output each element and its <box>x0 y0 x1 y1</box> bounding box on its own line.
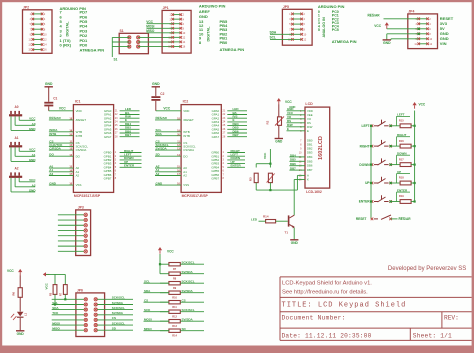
svg-text:JP5: JP5 <box>283 5 289 9</box>
svg-text:VCC: VCC <box>163 107 170 111</box>
svg-text:MOSI: MOSI <box>146 25 154 29</box>
svg-text:A2: A2 <box>32 183 36 187</box>
svg-text:C1: C1 <box>53 97 57 101</box>
svg-text:UP: UP <box>397 170 401 174</box>
svg-text:SCK/SCL: SCK/SCL <box>182 280 195 284</box>
svg-text:CS: CS <box>182 299 186 303</box>
svg-text:MISO: MISO <box>144 327 152 331</box>
svg-text:A2: A2 <box>156 172 160 176</box>
svg-text:SCL: SCL <box>144 280 150 284</box>
svg-text:GND: GND <box>17 332 25 336</box>
svg-text:SCK/SCL: SCK/SCL <box>182 308 195 312</box>
svg-text:VCC: VCC <box>167 250 174 254</box>
svg-text:5: 5 <box>318 28 320 32</box>
svg-text:INTB: INTB <box>183 134 190 138</box>
svg-text:CS/SDA: CS/SDA <box>76 148 87 152</box>
svg-text:R11: R11 <box>172 306 177 309</box>
svg-text:SCL: SCL <box>270 36 276 40</box>
svg-text:CS: CS <box>112 316 116 320</box>
svg-text:R19: R19 <box>399 194 404 198</box>
svg-text:DB3: DB3 <box>307 150 313 154</box>
svg-text:DIGITAL: DIGITAL <box>207 26 211 42</box>
svg-text:S1: S1 <box>120 29 124 33</box>
svg-text:R3: R3 <box>249 177 253 181</box>
svg-text:VSS: VSS <box>183 183 189 187</box>
svg-text:A2: A2 <box>14 167 18 171</box>
svg-text:R17: R17 <box>399 157 404 161</box>
svg-text:R10: R10 <box>172 296 177 299</box>
svg-text:DB5: DB5 <box>290 158 296 162</box>
svg-text:VCC: VCC <box>45 282 49 289</box>
svg-text:VCC: VCC <box>374 24 381 28</box>
svg-text:MISO: MISO <box>146 29 155 33</box>
svg-text:JP2: JP2 <box>23 6 29 10</box>
svg-text:SDA: SDA <box>156 132 163 136</box>
svg-text:DB6: DB6 <box>307 164 313 168</box>
svg-text:ENTER: ENTER <box>124 164 135 168</box>
svg-text:1602LCD: 1602LCD <box>318 136 324 160</box>
svg-text:K: K <box>307 178 309 182</box>
svg-text:R2: R2 <box>265 120 269 124</box>
svg-text:SV/SDA: SV/SDA <box>182 270 194 274</box>
svg-text:A0: A0 <box>14 105 18 109</box>
svg-text:GND: GND <box>156 181 164 185</box>
svg-text:GND: GND <box>29 158 37 162</box>
svg-text:SV/SDA: SV/SDA <box>112 301 124 305</box>
svg-text:SV/SDA: SV/SDA <box>156 146 168 150</box>
svg-text:MCP23S17-E/SP: MCP23S17-E/SP <box>182 194 209 198</box>
svg-text:DB4: DB4 <box>290 153 296 157</box>
svg-text:CS: CS <box>144 299 148 303</box>
svg-text:ENTER: ENTER <box>397 188 408 192</box>
svg-text:IC2: IC2 <box>183 99 189 103</box>
svg-text:DOWN: DOWN <box>359 163 370 167</box>
svg-text:VCC: VCC <box>29 117 36 121</box>
svg-text:RIGHT: RIGHT <box>360 144 370 148</box>
svg-text:DO: DO <box>183 154 188 158</box>
svg-text:R14: R14 <box>263 215 269 219</box>
svg-text:ENTER: ENTER <box>231 164 242 168</box>
svg-text:Document Number:: Document Number: <box>282 314 346 321</box>
svg-text:GND: GND <box>383 41 391 45</box>
svg-text:MISO: MISO <box>52 327 60 331</box>
svg-text:LEFT: LEFT <box>362 124 370 128</box>
svg-text:SV/SDA: SV/SDA <box>182 289 194 293</box>
svg-text:VDD: VDD <box>183 109 189 113</box>
svg-text:DB4: DB4 <box>307 155 313 159</box>
svg-text:R̅E̅S̅/AR: R̅E̅S̅/AR <box>155 116 167 120</box>
svg-text:R12: R12 <box>172 315 177 318</box>
svg-text:ANALOG IN: ANALOG IN <box>322 17 326 38</box>
svg-text:E: E <box>307 129 309 133</box>
svg-text:VCC: VCC <box>29 148 36 152</box>
svg-text:R̅E̅S̅/AR: R̅E̅S̅/AR <box>49 116 61 120</box>
svg-text:SDA: SDA <box>270 31 277 35</box>
svg-text:JP1: JP1 <box>163 6 169 10</box>
svg-text:JP3: JP3 <box>78 206 84 210</box>
svg-text:MCP23S17-E/SP: MCP23S17-E/SP <box>74 194 101 198</box>
svg-text:DB6: DB6 <box>290 162 296 166</box>
svg-text:VIN: VIN <box>440 41 447 46</box>
svg-text:T1: T1 <box>285 231 289 235</box>
svg-text:LED: LED <box>251 218 258 222</box>
svg-text:DIGITAL: DIGITAL <box>66 21 70 37</box>
svg-text:LEFT: LEFT <box>397 113 405 117</box>
svg-text:A1: A1 <box>32 153 36 157</box>
svg-text:SDA: SDA <box>52 306 59 310</box>
svg-text:PC5: PC5 <box>332 28 339 32</box>
svg-text:DB7: DB7 <box>290 167 296 171</box>
svg-text:R6: R6 <box>12 291 16 295</box>
svg-text:SCK/SCL: SCK/SCL <box>182 261 195 265</box>
svg-text:R18: R18 <box>399 176 404 180</box>
svg-text:SCK/SCL: SCK/SCL <box>112 306 125 310</box>
svg-text:VCC: VCC <box>285 100 292 104</box>
svg-text:See http://freeduino.ru for de: See http://freeduino.ru for details. <box>282 289 368 295</box>
svg-text:GND: GND <box>275 139 283 143</box>
svg-text:TITLE: LCD Keypad Shield: TITLE: LCD Keypad Shield <box>282 301 407 309</box>
svg-text:GND: GND <box>291 241 299 245</box>
svg-text:GND: GND <box>49 181 57 185</box>
svg-text:S1: S1 <box>114 58 118 62</box>
svg-text:GPB7: GPB7 <box>104 177 112 181</box>
svg-text:R7: R7 <box>60 292 63 296</box>
svg-text:A1: A1 <box>14 136 18 140</box>
svg-text:SCK/SCL: SCK/SCL <box>112 321 125 325</box>
svg-text:DB5: DB5 <box>307 159 313 163</box>
svg-text:Sheet: 1/1: Sheet: 1/1 <box>413 332 452 339</box>
svg-text:Date: 11.12.11 20:35:00: Date: 11.12.11 20:35:00 <box>282 332 372 339</box>
svg-text:SCK/SCL: SCK/SCL <box>112 296 125 300</box>
svg-text:VSS: VSS <box>76 183 82 187</box>
svg-text:LCD-1602: LCD-1602 <box>306 190 322 194</box>
svg-text:INTB: INTB <box>49 132 57 136</box>
svg-text:DOWN: DOWN <box>397 151 407 155</box>
svg-text:R15: R15 <box>399 119 404 123</box>
svg-text:GND: GND <box>29 188 37 192</box>
svg-text:/RESET: /RESET <box>76 118 87 122</box>
svg-text:C/RSDA: C/RSDA <box>49 146 61 150</box>
svg-text:PB0: PB0 <box>220 40 229 45</box>
svg-text:A0: A0 <box>32 122 36 126</box>
svg-text:REV:: REV: <box>444 314 459 321</box>
svg-text:MOSI: MOSI <box>144 318 152 322</box>
svg-text:GPA7: GPA7 <box>104 135 112 139</box>
svg-text:DB7: DB7 <box>125 133 131 137</box>
svg-text:JP4: JP4 <box>408 10 414 14</box>
svg-text:R14: R14 <box>172 334 177 337</box>
svg-text:DB7: DB7 <box>233 133 239 137</box>
svg-text:R̅E̅S̅/AR: R̅E̅S̅/AR <box>368 13 381 17</box>
svg-text:LCD-Keypad Shield for Arduino: LCD-Keypad Shield for Arduino v1. <box>282 280 372 286</box>
svg-text:ATMEGA PIN: ATMEGA PIN <box>220 47 245 52</box>
svg-text:GND: GND <box>289 105 295 109</box>
svg-text:JP6: JP6 <box>77 289 83 293</box>
svg-text:GND: GND <box>45 82 53 86</box>
svg-text:ARDUINO PIN: ARDUINO PIN <box>318 4 345 9</box>
svg-text:A2: A2 <box>49 172 53 176</box>
svg-text:ENTER: ENTER <box>359 200 371 204</box>
svg-text:A2: A2 <box>76 174 80 178</box>
svg-text:ARDUINO PIN: ARDUINO PIN <box>199 4 226 9</box>
svg-text:R16: R16 <box>399 139 404 143</box>
svg-text:RIGHT: RIGHT <box>397 133 407 137</box>
svg-text:MOSI: MOSI <box>52 321 60 325</box>
svg-text:ATMEGA PIN: ATMEGA PIN <box>80 47 105 52</box>
svg-text:INTB: INTB <box>76 134 83 138</box>
svg-text:VCC: VCC <box>146 20 153 24</box>
svg-text:VCC: VCC <box>59 107 66 111</box>
svg-text:/RESET: /RESET <box>183 118 194 122</box>
svg-text:GPA7: GPA7 <box>212 135 220 139</box>
svg-text:SCK: SCK <box>144 308 151 312</box>
svg-text:Developed by Pereverzev SS: Developed by Pereverzev SS <box>388 266 466 272</box>
svg-text:VDD: VDD <box>76 109 82 113</box>
svg-text:E: E <box>287 127 289 131</box>
svg-text:GND: GND <box>29 127 37 131</box>
svg-text:VCC: VCC <box>7 269 14 273</box>
svg-text:DB7: DB7 <box>307 168 313 172</box>
svg-text:A2: A2 <box>183 174 187 178</box>
svg-text:DO: DO <box>49 153 54 157</box>
svg-text:GPB7: GPB7 <box>211 177 219 181</box>
svg-text:IC1: IC1 <box>75 99 81 103</box>
svg-text:GND: GND <box>152 82 160 86</box>
svg-text:VCC: VCC <box>263 152 267 159</box>
svg-text:SV/SDA: SV/SDA <box>182 318 194 322</box>
svg-text:VCC: VCC <box>419 103 426 107</box>
svg-text:TCK: TCK <box>52 311 59 315</box>
svg-text:DO: DO <box>76 154 81 158</box>
svg-text:R13: R13 <box>172 325 177 328</box>
svg-text:ATMEGA PIN: ATMEGA PIN <box>332 39 357 44</box>
svg-text:C2: C2 <box>160 92 164 96</box>
svg-text:SV/SDA: SV/SDA <box>112 311 124 315</box>
svg-text:R̅E̅S̅/AR: R̅E̅S̅/AR <box>399 217 412 221</box>
svg-text:SDA: SDA <box>144 289 151 293</box>
svg-text:0 (RX): 0 (RX) <box>60 43 72 48</box>
svg-text:RESET: RESET <box>356 217 367 221</box>
svg-text:CS/SDA: CS/SDA <box>183 148 194 152</box>
svg-text:LCD: LCD <box>305 102 313 106</box>
svg-text:VCC: VCC <box>29 178 36 182</box>
